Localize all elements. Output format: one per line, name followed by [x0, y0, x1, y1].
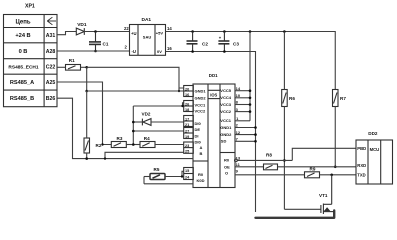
svg-text:R3: R3 — [117, 136, 123, 141]
svg-text:GND1: GND1 — [220, 125, 232, 130]
svg-text:+: + — [219, 36, 222, 41]
resistor R9 — [305, 172, 320, 178]
wire R9 to TXD — [320, 174, 357, 176]
svg-text:RS485_A: RS485_A — [10, 80, 34, 86]
svg-text:VCC1: VCC1 — [195, 102, 206, 107]
svg-text:VCC3: VCC3 — [220, 102, 231, 107]
svg-text:16: 16 — [185, 93, 189, 97]
svg-text:R0: R0 — [224, 158, 230, 163]
svg-text:0V: 0V — [157, 49, 162, 54]
svg-text:O: O — [225, 171, 228, 176]
wire C22 to R1 — [57, 66, 66, 68]
svg-text:OE: OE — [224, 164, 230, 169]
svg-text:R6: R6 — [289, 96, 295, 101]
node A mid junction — [126, 144, 140, 146]
svg-text:9: 9 — [236, 168, 239, 173]
svg-text:R5: R5 — [154, 167, 160, 172]
DD1 right pin stubs upper to +5V drop — [235, 90, 250, 92]
node VT1 drain on TXD line — [330, 174, 333, 177]
svg-text:R8: R8 — [266, 153, 272, 158]
svg-text:GND2: GND2 — [220, 132, 232, 137]
svg-text:19: 19 — [185, 135, 189, 139]
svg-text:B26: B26 — [46, 96, 56, 102]
svg-text:0 В: 0 В — [19, 49, 28, 55]
node GND to pin16 — [85, 90, 88, 93]
svg-text:VCC5: VCC5 — [220, 88, 231, 93]
node C1 bottom junction — [94, 50, 97, 53]
svg-text:C3: C3 — [233, 41, 239, 46]
svg-text:B: B — [200, 151, 203, 156]
wire +5V rail — [166, 32, 336, 90]
wire R2 bottom — [86, 153, 88, 159]
wire VCC vertical — [132, 106, 134, 145]
svg-text:TXD: TXD — [357, 172, 365, 177]
node C2 bottom — [191, 50, 194, 53]
svg-text:VCC4: VCC4 — [220, 95, 231, 100]
svg-text:DE: DE — [195, 127, 201, 132]
connector XP1 — [4, 15, 58, 107]
svg-text:26: 26 — [185, 102, 189, 106]
svg-text:27: 27 — [185, 129, 189, 133]
svg-text:16: 16 — [167, 46, 172, 51]
wire pin13 line to PBD — [292, 148, 356, 160]
svg-text:A28: A28 — [46, 49, 56, 55]
wire GND to DD1 pin 16 — [87, 90, 184, 92]
wire DD1 pin 26 hook — [183, 103, 184, 106]
node R6 top on +5V rail — [283, 30, 286, 33]
diode VD1 — [76, 28, 84, 35]
wire R5 line — [144, 176, 150, 178]
node C2 top — [191, 30, 194, 33]
XP1 header arrow — [47, 17, 56, 25]
svg-text:A31: A31 — [46, 33, 56, 39]
wire GND bus down — [86, 67, 88, 91]
wire bottom to DD1 — [144, 183, 193, 185]
capacitor C2 — [187, 32, 198, 52]
svg-text:15: 15 — [185, 169, 189, 173]
node C1 top junction — [94, 30, 97, 33]
svg-text:22: 22 — [124, 26, 129, 31]
svg-text:R9: R9 — [310, 166, 316, 171]
svg-text:SD: SD — [221, 139, 227, 144]
capacitor C3 polarized — [218, 32, 229, 52]
svg-text:20: 20 — [185, 87, 189, 91]
resistor R6 — [282, 90, 288, 107]
node +5V drop to DD1 — [249, 30, 252, 33]
svg-text:C1: C1 — [103, 42, 109, 47]
IC DD1 — [193, 84, 235, 188]
resistor R4 — [140, 142, 155, 148]
wire C22 over to DD1 pin 20 — [87, 67, 184, 88]
DD1 right pin names — [220, 88, 232, 176]
svg-text:XP1: XP1 — [25, 4, 35, 10]
wire 0V from A28 to DA1 pin 2 — [57, 50, 129, 52]
svg-text:R1: R1 — [69, 58, 75, 63]
DC-DC converter DA1 — [130, 25, 166, 56]
capacitor C1 — [89, 32, 101, 52]
wire VCC line to DD1 pin 18 — [133, 105, 183, 107]
wire B line to R5 branch — [143, 177, 145, 184]
wire VD2 line to DD1 pin 21 — [133, 121, 142, 123]
svg-text:23: 23 — [185, 144, 189, 148]
svg-text:24: 24 — [185, 176, 190, 180]
node R1 junction — [85, 66, 88, 69]
resistor R8 — [264, 164, 278, 170]
resistor R5 — [150, 174, 165, 180]
svg-text:SAU: SAU — [143, 34, 152, 39]
svg-text:R4: R4 — [144, 136, 150, 141]
DD1 left pin names — [195, 89, 207, 183]
svg-text:17: 17 — [185, 117, 189, 121]
resistor R7 — [333, 90, 339, 107]
DD1 right GND pin stubs to 0V drop — [235, 127, 256, 129]
wire +24V from A31 to VD1 — [57, 32, 76, 35]
svg-text:DD1: DD1 — [209, 73, 218, 78]
wire R4 to DD1 pin 23 — [155, 144, 184, 146]
node C3 top — [223, 30, 226, 33]
svg-text:VT1: VT1 — [319, 193, 328, 198]
wire VD1 to DA1 pin 22 — [84, 31, 129, 33]
svg-text:21: 21 — [185, 123, 189, 127]
svg-text:VD2: VD2 — [142, 112, 151, 117]
DD1 right pin numbers — [236, 86, 241, 173]
svg-text:R7: R7 — [340, 96, 346, 101]
svg-text:GND2: GND2 — [195, 95, 207, 100]
resistor R2 — [84, 138, 90, 153]
node R6 to pin13 line — [283, 159, 286, 162]
svg-text:VCC2: VCC2 — [195, 108, 206, 113]
diode VD2 — [142, 119, 151, 126]
DD1 pin 13 line with inversion bubble — [235, 159, 238, 162]
wire gate line — [284, 208, 321, 210]
svg-text:GND1: GND1 — [195, 89, 207, 94]
svg-text:Цепь: Цепь — [15, 19, 30, 25]
wire R2 top — [86, 91, 88, 138]
wire R1 to GND bus — [81, 66, 87, 68]
svg-text:DD2: DD2 — [368, 131, 378, 136]
svg-text:C22: C22 — [46, 64, 56, 70]
svg-text:25: 25 — [185, 150, 189, 154]
wire R8 to RXD — [278, 166, 357, 168]
svg-text:-U: -U — [132, 49, 136, 54]
svg-text:R2: R2 — [96, 143, 102, 148]
svg-text:VCC2: VCC2 — [220, 109, 231, 114]
wire +5V drop — [249, 32, 251, 121]
svg-text:18: 18 — [185, 108, 189, 112]
wire R6 top — [283, 32, 285, 90]
wire B jog up to pin 25 — [105, 152, 184, 158]
svg-text:A25: A25 — [46, 80, 56, 86]
svg-text:IOS: IOS — [210, 93, 217, 98]
svg-text:+5V: +5V — [156, 31, 164, 36]
svg-text:MCU: MCU — [370, 147, 380, 152]
node C3 bottom — [223, 50, 226, 53]
resistor R1 — [66, 65, 81, 71]
svg-text:RS485_ЕСН1: RS485_ЕСН1 — [8, 64, 38, 70]
wire DD1 pin 15 hook — [182, 171, 184, 176]
svg-text:14: 14 — [167, 26, 172, 31]
svg-text:K0D: K0D — [197, 178, 205, 183]
svg-text:VCC1: VCC1 — [220, 118, 231, 123]
svg-text:RXD: RXD — [357, 163, 366, 168]
DD1 pin 9 TXD line — [235, 174, 305, 176]
svg-text:PBD: PBD — [357, 146, 366, 151]
wire RS485_A from A25 — [57, 82, 111, 145]
svg-text:DI0: DI0 — [195, 121, 202, 126]
wire RS485_B from B26 — [57, 98, 193, 158]
svg-text:2: 2 — [125, 45, 128, 50]
DD1 pin 11 RXD line — [235, 166, 264, 168]
svg-text:C2: C2 — [202, 41, 208, 46]
svg-text:+24 В: +24 В — [15, 33, 30, 39]
svg-text:+U: +U — [131, 31, 136, 36]
svg-text:VD1: VD1 — [77, 22, 87, 28]
svg-text:RS485_B: RS485_B — [10, 96, 34, 102]
wire 0V bottom to VT1 source — [256, 211, 335, 218]
DD1 left pin boxes — [184, 86, 194, 180]
svg-text:R0: R0 — [198, 172, 204, 177]
svg-text:DA1: DA1 — [142, 17, 152, 23]
MCU DD2 — [356, 140, 393, 184]
wire R7 bottom to RXD line — [334, 107, 336, 167]
wire to DD1 pin 27 — [133, 130, 183, 132]
svg-text:A: A — [200, 145, 203, 150]
resistor R3 — [111, 142, 126, 148]
wire R6 bottom to gate line — [283, 107, 285, 210]
svg-text:DI: DI — [195, 133, 199, 138]
wire 0V rail — [166, 52, 256, 213]
